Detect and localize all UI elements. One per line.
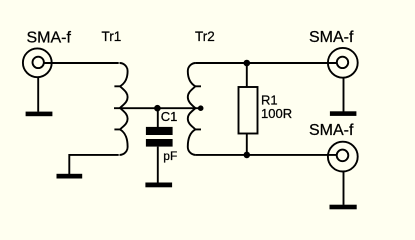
svg-text:100R: 100R (261, 106, 292, 121)
node R1 top junction dot (244, 60, 251, 67)
ground (bottom-right SMA) (330, 205, 357, 210)
wire X3 ground stem (343, 171, 345, 205)
connector X3 SMA-f inner pin circle (337, 150, 349, 162)
connector X2 SMA-f inner pin circle (337, 57, 348, 68)
wire R1 top lead (246, 63, 248, 87)
capacitor C1 top plate (146, 127, 173, 135)
connector X1 SMA-f inner pin circle (33, 57, 44, 68)
node Tr2 center-tap junction dot (198, 105, 204, 111)
wire X1 pin to Tr1 top (44, 62, 119, 64)
transformer Tr1 winding (114, 63, 127, 155)
wire C1 bottom lead (157, 147, 159, 183)
wire C1 top lead (157, 108, 159, 127)
wire center-tap rail Tr1 to Tr2 (114, 107, 201, 109)
transformer Tr2 winding (188, 63, 201, 155)
capacitor C1 bottom plate (146, 139, 173, 147)
svg-text:SMA-f: SMA-f (309, 29, 354, 46)
node R1 bottom junction dot (244, 152, 251, 159)
svg-text:C1: C1 (161, 109, 178, 124)
node C1 junction dot (154, 105, 161, 112)
ground (Tr1) (57, 174, 83, 179)
ground (top-right SMA) (330, 111, 357, 116)
wire X1 ground stem (37, 77, 39, 112)
ground (C1) (145, 183, 172, 188)
ground (left SMA) (26, 112, 53, 117)
wire R1 bottom lead (246, 134, 248, 155)
wire Tr2 bottom to SMA bottom-right (196, 154, 337, 156)
svg-text:Tr2: Tr2 (195, 29, 215, 44)
svg-text:SMA-f: SMA-f (27, 30, 72, 47)
connector X2 SMA-f outer circle (328, 48, 358, 78)
svg-text:Tr1: Tr1 (102, 29, 122, 44)
resistor R1 body (239, 87, 258, 134)
wire Tr2 top to SMA top-right (196, 62, 337, 64)
wire Tr1 bottom to ground (69, 155, 118, 174)
wire X2 ground stem (343, 78, 345, 112)
connector X3 SMA-f outer circle (328, 142, 358, 172)
connector X1 SMA-f outer circle (23, 48, 52, 77)
svg-text:SMA-f: SMA-f (309, 122, 354, 139)
svg-text:pF: pF (163, 149, 177, 163)
